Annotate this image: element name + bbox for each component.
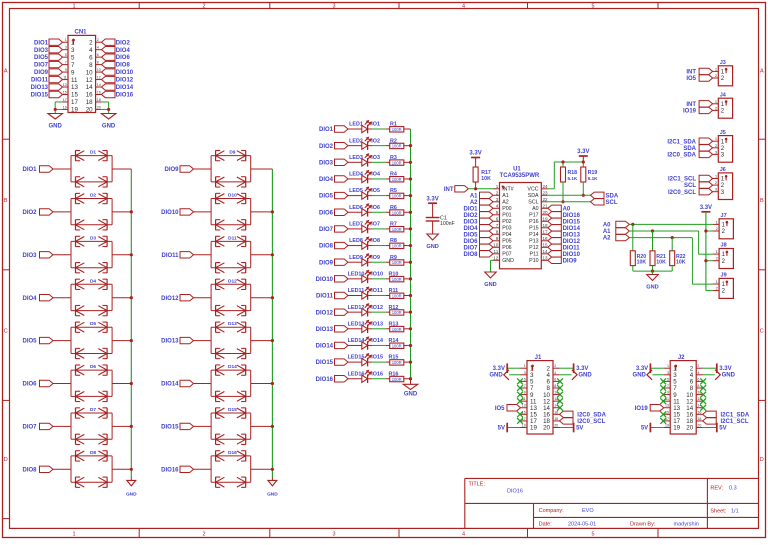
svg-text:DIO14: DIO14 xyxy=(316,344,334,350)
svg-text:16: 16 xyxy=(86,92,93,99)
svg-text:TITLE:: TITLE: xyxy=(469,482,486,488)
svg-text:DIO9: DIO9 xyxy=(34,70,49,76)
svg-text:4: 4 xyxy=(554,371,556,375)
svg-text:I2C0_SCL: I2C0_SCL xyxy=(577,419,605,425)
svg-text:DIO4: DIO4 xyxy=(319,177,334,183)
svg-text:P00: P00 xyxy=(502,206,511,212)
svg-text:5V: 5V xyxy=(576,425,583,431)
svg-text:P03: P03 xyxy=(502,226,511,232)
svg-text:22: 22 xyxy=(543,197,549,202)
svg-text:DIO7: DIO7 xyxy=(319,227,334,233)
svg-text:19: 19 xyxy=(63,105,67,109)
svg-text:0.3: 0.3 xyxy=(729,486,737,492)
svg-text:INT: INT xyxy=(686,102,696,108)
svg-text:A1: A1 xyxy=(603,229,611,235)
svg-text:3.3V: 3.3V xyxy=(493,366,505,372)
svg-text:IO5: IO5 xyxy=(495,406,505,412)
svg-text:2: 2 xyxy=(202,531,205,537)
svg-text:19: 19 xyxy=(543,216,549,221)
svg-text:16: 16 xyxy=(97,90,101,94)
svg-text:GND: GND xyxy=(126,492,137,498)
svg-text:DIO14: DIO14 xyxy=(161,382,179,388)
svg-text:DIO12: DIO12 xyxy=(316,310,334,316)
svg-text:LED8: LED8 xyxy=(349,238,363,244)
svg-text:D16: D16 xyxy=(228,450,237,456)
svg-text:R10: R10 xyxy=(388,271,398,277)
svg-text:P16: P16 xyxy=(529,219,538,225)
svg-text:D6: D6 xyxy=(90,364,96,370)
svg-text:GND: GND xyxy=(426,244,438,250)
svg-text:1: 1 xyxy=(667,364,669,368)
svg-text:I2C1_SDA: I2C1_SDA xyxy=(721,412,750,418)
svg-text:IO7: IO7 xyxy=(371,222,380,228)
svg-text:A: A xyxy=(760,69,764,75)
svg-text:18: 18 xyxy=(543,223,549,228)
svg-text:SCL: SCL xyxy=(684,183,696,189)
svg-text:3: 3 xyxy=(524,371,526,375)
svg-text:EVO: EVO xyxy=(582,508,594,514)
svg-text:20: 20 xyxy=(97,105,101,109)
svg-text:3.3V: 3.3V xyxy=(577,149,589,155)
svg-text:DIO13: DIO13 xyxy=(31,85,49,91)
svg-text:P05: P05 xyxy=(502,239,511,245)
svg-text:A2: A2 xyxy=(603,236,611,242)
svg-text:DIO8: DIO8 xyxy=(116,63,131,69)
svg-text:GND: GND xyxy=(502,258,514,264)
svg-text:21: 21 xyxy=(543,203,549,208)
svg-text:100R: 100R xyxy=(392,294,402,299)
svg-text:DIO7: DIO7 xyxy=(34,63,49,69)
svg-text:14: 14 xyxy=(543,249,549,254)
svg-text:R5: R5 xyxy=(390,188,397,194)
svg-text:3: 3 xyxy=(496,197,499,202)
svg-text:9: 9 xyxy=(65,68,67,72)
svg-text:DIO4: DIO4 xyxy=(463,226,478,232)
svg-text:IO8: IO8 xyxy=(371,238,380,244)
svg-text:DIO4: DIO4 xyxy=(116,48,131,54)
svg-text:5.1K: 5.1K xyxy=(588,176,598,181)
svg-text:P14: P14 xyxy=(529,232,538,238)
svg-text:DIO6: DIO6 xyxy=(116,55,131,61)
svg-text:DIO13: DIO13 xyxy=(316,327,334,333)
svg-text:J6: J6 xyxy=(720,167,726,173)
svg-text:P10: P10 xyxy=(529,258,538,264)
svg-text:DIO3: DIO3 xyxy=(22,253,37,259)
svg-text:DIO13: DIO13 xyxy=(161,339,179,345)
svg-text:2: 2 xyxy=(97,38,99,42)
svg-text:2: 2 xyxy=(202,3,205,9)
svg-text:DIO15: DIO15 xyxy=(563,219,581,225)
svg-text:100R: 100R xyxy=(392,127,402,132)
svg-text:20: 20 xyxy=(686,425,693,432)
svg-text:DIO6: DIO6 xyxy=(319,210,334,216)
svg-text:DIO3: DIO3 xyxy=(319,160,334,166)
svg-text:INT: INT xyxy=(444,187,454,193)
svg-text:P17: P17 xyxy=(529,213,538,219)
svg-text:DIO8: DIO8 xyxy=(319,244,334,250)
svg-text:DIO9: DIO9 xyxy=(319,260,334,266)
svg-text:DIO15: DIO15 xyxy=(161,425,179,431)
svg-text:13: 13 xyxy=(71,84,78,91)
svg-text:R9: R9 xyxy=(390,255,397,261)
svg-text:P02: P02 xyxy=(502,219,511,225)
svg-text:20: 20 xyxy=(86,107,93,114)
svg-text:R1: R1 xyxy=(390,122,397,128)
svg-text:4: 4 xyxy=(89,47,93,54)
svg-text:D: D xyxy=(760,457,764,463)
svg-text:B: B xyxy=(4,198,8,204)
svg-text:10: 10 xyxy=(97,68,101,72)
svg-text:17: 17 xyxy=(71,99,78,106)
svg-text:IO16: IO16 xyxy=(371,371,383,377)
svg-text:9: 9 xyxy=(496,236,499,241)
svg-text:3.3V: 3.3V xyxy=(719,366,731,372)
svg-text:IO15: IO15 xyxy=(371,355,383,361)
svg-text:6: 6 xyxy=(97,53,99,57)
svg-text:DIO1: DIO1 xyxy=(319,127,334,133)
svg-text:A2: A2 xyxy=(470,200,478,206)
svg-text:R6: R6 xyxy=(390,205,397,211)
svg-text:3: 3 xyxy=(332,531,335,537)
svg-text:IO19: IO19 xyxy=(683,109,697,115)
svg-text:13: 13 xyxy=(543,255,549,260)
svg-text:DIO16: DIO16 xyxy=(563,213,581,219)
svg-text:I2C1_SDA: I2C1_SDA xyxy=(667,139,696,145)
svg-text:R3: R3 xyxy=(390,155,397,161)
svg-text:20: 20 xyxy=(697,424,701,428)
svg-text:100R: 100R xyxy=(392,277,402,282)
svg-text:DIO2: DIO2 xyxy=(319,144,334,150)
svg-text:IO12: IO12 xyxy=(371,305,383,311)
svg-text:A1: A1 xyxy=(470,193,478,199)
svg-text:10K: 10K xyxy=(656,260,666,266)
svg-text:1: 1 xyxy=(72,3,75,9)
svg-text:100R: 100R xyxy=(392,227,402,232)
svg-text:A2: A2 xyxy=(502,200,509,206)
svg-text:IO3: IO3 xyxy=(371,155,380,161)
svg-text:Sheet:: Sheet: xyxy=(710,508,726,514)
svg-text:I2C0_SDA: I2C0_SDA xyxy=(667,153,696,159)
svg-text:SDA: SDA xyxy=(528,193,539,199)
svg-text:D2: D2 xyxy=(90,193,96,199)
svg-text:VCC: VCC xyxy=(527,187,538,193)
svg-text:8: 8 xyxy=(697,384,699,388)
svg-text:INT: INT xyxy=(686,70,696,76)
svg-text:DIO5: DIO5 xyxy=(22,339,37,345)
svg-text:6: 6 xyxy=(89,54,93,61)
svg-text:DIO7: DIO7 xyxy=(22,425,37,431)
svg-text:1: 1 xyxy=(496,184,499,189)
svg-text:100R: 100R xyxy=(392,360,402,365)
svg-text:5: 5 xyxy=(591,531,594,537)
svg-text:DIO8: DIO8 xyxy=(463,252,478,258)
svg-text:J7: J7 xyxy=(721,213,727,219)
svg-text:LED4: LED4 xyxy=(349,172,363,178)
svg-text:DIO11: DIO11 xyxy=(161,253,179,259)
svg-text:2: 2 xyxy=(496,190,499,195)
svg-text:J9: J9 xyxy=(721,273,727,279)
svg-text:13: 13 xyxy=(63,83,67,87)
svg-text:D1: D1 xyxy=(90,150,96,156)
svg-text:11: 11 xyxy=(494,249,499,254)
svg-text:LED3: LED3 xyxy=(349,155,363,161)
svg-text:4: 4 xyxy=(97,46,99,50)
svg-text:Drawn By:: Drawn By: xyxy=(630,521,656,527)
svg-text:2: 2 xyxy=(697,364,699,368)
svg-text:I2C1_SCL: I2C1_SCL xyxy=(721,419,749,425)
svg-text:A0: A0 xyxy=(603,223,611,229)
svg-text:9: 9 xyxy=(71,69,75,76)
svg-text:12: 12 xyxy=(97,76,101,80)
svg-text:24: 24 xyxy=(543,184,549,189)
svg-text:DIO12: DIO12 xyxy=(563,239,581,245)
svg-text:100R: 100R xyxy=(392,194,402,199)
svg-text:D15: D15 xyxy=(228,407,237,413)
svg-text:Date:: Date: xyxy=(539,521,553,527)
svg-text:19: 19 xyxy=(673,425,680,432)
svg-text:2: 2 xyxy=(554,364,556,368)
svg-text:23: 23 xyxy=(543,190,549,195)
svg-text:D3: D3 xyxy=(90,235,96,241)
svg-text:DIO1: DIO1 xyxy=(34,40,49,46)
svg-text:3: 3 xyxy=(332,3,335,9)
svg-text:IO5: IO5 xyxy=(686,76,696,82)
svg-text:100R: 100R xyxy=(392,210,402,215)
svg-text:6: 6 xyxy=(496,216,499,221)
svg-text:P07: P07 xyxy=(502,252,511,258)
svg-text:I2C0_SCL: I2C0_SCL xyxy=(668,190,696,196)
svg-text:GND: GND xyxy=(49,124,63,130)
svg-text:9: 9 xyxy=(667,391,669,395)
svg-text:7: 7 xyxy=(496,223,499,228)
svg-text:LED2: LED2 xyxy=(349,138,363,144)
svg-text:P04: P04 xyxy=(502,232,511,238)
svg-text:DIO14: DIO14 xyxy=(116,85,134,91)
svg-text:R14: R14 xyxy=(388,338,398,344)
svg-text:100nF: 100nF xyxy=(440,221,455,227)
svg-text:A: A xyxy=(4,69,8,75)
svg-text:D4: D4 xyxy=(90,278,96,284)
svg-text:LED7: LED7 xyxy=(349,222,363,228)
svg-text:DIO15: DIO15 xyxy=(31,93,49,99)
svg-text:3: 3 xyxy=(667,371,669,375)
svg-text:IO5: IO5 xyxy=(371,188,380,194)
svg-text:DIO1: DIO1 xyxy=(463,206,478,212)
svg-text:100R: 100R xyxy=(392,343,402,348)
svg-text:DIO6: DIO6 xyxy=(22,382,37,388)
svg-text:7: 7 xyxy=(667,384,669,388)
svg-text:DIO14: DIO14 xyxy=(563,226,581,232)
svg-text:R8: R8 xyxy=(390,238,397,244)
svg-text:P01: P01 xyxy=(502,213,511,219)
svg-text:LED1: LED1 xyxy=(349,122,363,128)
svg-text:D: D xyxy=(4,457,8,463)
svg-text:16: 16 xyxy=(543,236,549,241)
svg-text:19: 19 xyxy=(71,107,78,114)
svg-text:R7: R7 xyxy=(390,222,397,228)
svg-text:8: 8 xyxy=(554,384,556,388)
svg-text:2: 2 xyxy=(89,39,93,46)
svg-text:4: 4 xyxy=(462,531,465,537)
svg-text:1: 1 xyxy=(72,531,75,537)
svg-text:14: 14 xyxy=(97,83,101,87)
svg-text:12: 12 xyxy=(86,77,93,84)
svg-text:J5: J5 xyxy=(720,130,726,136)
svg-text:CN1: CN1 xyxy=(74,29,87,35)
svg-text:20: 20 xyxy=(543,425,550,432)
svg-text:A0: A0 xyxy=(563,206,571,212)
svg-text:IO1: IO1 xyxy=(371,122,380,128)
svg-text:17: 17 xyxy=(63,98,67,102)
svg-text:10: 10 xyxy=(86,69,93,76)
svg-text:3.3V: 3.3V xyxy=(576,366,588,372)
svg-text:5V: 5V xyxy=(498,425,505,431)
svg-text:SDA: SDA xyxy=(606,193,619,199)
svg-text:DIO11: DIO11 xyxy=(316,294,334,300)
svg-text:DIO16: DIO16 xyxy=(161,467,179,473)
svg-text:18: 18 xyxy=(86,99,93,106)
svg-text:J4: J4 xyxy=(720,92,727,98)
svg-text:LED9: LED9 xyxy=(349,255,363,261)
svg-text:DIO2: DIO2 xyxy=(116,40,131,46)
svg-text:IO14: IO14 xyxy=(371,338,383,344)
svg-text:D5: D5 xyxy=(90,321,96,327)
svg-text:100R: 100R xyxy=(392,160,402,165)
svg-text:4: 4 xyxy=(496,203,499,208)
svg-text:D11: D11 xyxy=(228,235,237,241)
svg-text:R15: R15 xyxy=(388,355,398,361)
svg-text:J8: J8 xyxy=(721,243,727,249)
svg-text:SCL: SCL xyxy=(606,200,618,206)
svg-text:100R: 100R xyxy=(392,177,402,182)
svg-text:IO10: IO10 xyxy=(371,271,383,277)
svg-text:IO11: IO11 xyxy=(371,288,382,294)
svg-text:DIO3: DIO3 xyxy=(34,48,49,54)
svg-text:P12: P12 xyxy=(529,245,538,251)
svg-text:I2C0_SDA: I2C0_SDA xyxy=(577,412,606,418)
svg-text:1: 1 xyxy=(524,364,526,368)
svg-text:DIO12: DIO12 xyxy=(116,78,134,84)
svg-text:100R: 100R xyxy=(392,244,402,249)
svg-text:DIO9: DIO9 xyxy=(164,167,179,173)
svg-text:12: 12 xyxy=(493,255,499,260)
svg-text:8: 8 xyxy=(496,229,499,234)
svg-text:U1: U1 xyxy=(513,166,521,172)
svg-text:R12: R12 xyxy=(388,305,398,311)
svg-text:100R: 100R xyxy=(392,260,402,265)
svg-text:R4: R4 xyxy=(390,172,397,178)
svg-text:P06: P06 xyxy=(502,245,511,251)
svg-text:5V: 5V xyxy=(641,425,648,431)
svg-text:1/1: 1/1 xyxy=(731,508,739,514)
svg-text:100R: 100R xyxy=(392,310,402,315)
svg-text:DIO10: DIO10 xyxy=(116,70,134,76)
svg-text:DIO11: DIO11 xyxy=(31,78,49,84)
svg-text:INT#: INT# xyxy=(502,187,514,193)
svg-text:6: 6 xyxy=(697,377,699,381)
svg-text:DIO4: DIO4 xyxy=(22,296,37,302)
svg-text:7: 7 xyxy=(524,384,526,388)
svg-text:DIO1: DIO1 xyxy=(22,167,37,173)
svg-text:100R: 100R xyxy=(392,327,402,332)
svg-text:3.3V: 3.3V xyxy=(636,366,648,372)
svg-text:3: 3 xyxy=(65,46,67,50)
svg-text:5: 5 xyxy=(71,54,75,61)
svg-text:10K: 10K xyxy=(676,260,686,266)
svg-text:LED5: LED5 xyxy=(349,188,363,194)
svg-text:madyrshin: madyrshin xyxy=(674,521,699,527)
svg-text:15: 15 xyxy=(71,92,78,99)
svg-text:D14: D14 xyxy=(228,364,237,370)
svg-text:17: 17 xyxy=(543,229,549,234)
svg-text:8: 8 xyxy=(97,61,99,65)
svg-text:DIO8: DIO8 xyxy=(22,467,37,473)
svg-text:DIO2: DIO2 xyxy=(463,213,478,219)
svg-text:GND: GND xyxy=(633,372,647,378)
svg-text:SDA: SDA xyxy=(683,146,696,152)
svg-text:IO2: IO2 xyxy=(371,138,380,144)
svg-text:15: 15 xyxy=(63,90,67,94)
svg-text:5: 5 xyxy=(667,377,669,381)
svg-text:D13: D13 xyxy=(228,321,237,327)
svg-text:SCL: SCL xyxy=(528,200,538,206)
svg-text:5.1K: 5.1K xyxy=(568,176,578,181)
svg-text:R2: R2 xyxy=(390,138,397,144)
svg-text:P13: P13 xyxy=(529,239,538,245)
svg-text:10K: 10K xyxy=(637,260,647,266)
svg-text:8: 8 xyxy=(89,62,93,69)
svg-text:B: B xyxy=(760,198,764,204)
svg-text:DIO5: DIO5 xyxy=(319,194,334,200)
svg-text:R11: R11 xyxy=(389,288,399,294)
svg-text:D8: D8 xyxy=(90,450,96,456)
svg-text:1: 1 xyxy=(65,38,67,42)
svg-text:DIO10: DIO10 xyxy=(563,252,581,258)
svg-text:3.3V: 3.3V xyxy=(426,196,438,202)
svg-text:R13: R13 xyxy=(388,321,398,327)
svg-text:DIO16: DIO16 xyxy=(507,489,523,495)
svg-text:Company:: Company: xyxy=(539,508,565,514)
svg-text:P11: P11 xyxy=(530,252,539,258)
svg-text:100R: 100R xyxy=(392,144,402,149)
svg-text:D7: D7 xyxy=(90,407,96,413)
svg-text:5: 5 xyxy=(524,377,526,381)
svg-text:GND: GND xyxy=(489,372,503,378)
svg-text:DIO11: DIO11 xyxy=(563,245,581,251)
svg-text:GND: GND xyxy=(484,282,496,288)
svg-text:DIO5: DIO5 xyxy=(463,232,478,238)
svg-text:20: 20 xyxy=(543,210,549,215)
svg-text:7: 7 xyxy=(65,61,67,65)
svg-text:3: 3 xyxy=(71,47,75,54)
svg-text:LED6: LED6 xyxy=(349,205,363,211)
svg-text:DIO15: DIO15 xyxy=(316,360,334,366)
svg-text:A1: A1 xyxy=(502,193,509,199)
svg-text:IO4: IO4 xyxy=(371,172,380,178)
svg-text:GND: GND xyxy=(578,372,592,378)
svg-text:DIO6: DIO6 xyxy=(463,239,478,245)
svg-text:4: 4 xyxy=(697,371,699,375)
svg-text:DIO16: DIO16 xyxy=(116,93,134,99)
svg-text:GND: GND xyxy=(102,124,116,130)
svg-text:TCA9535PWR: TCA9535PWR xyxy=(500,173,540,179)
svg-text:D10: D10 xyxy=(228,193,237,199)
svg-text:IO19: IO19 xyxy=(635,406,649,412)
svg-text:D9: D9 xyxy=(229,150,235,156)
svg-text:11: 11 xyxy=(71,77,78,84)
svg-text:GND: GND xyxy=(404,391,418,397)
svg-text:DIO7: DIO7 xyxy=(463,245,478,251)
